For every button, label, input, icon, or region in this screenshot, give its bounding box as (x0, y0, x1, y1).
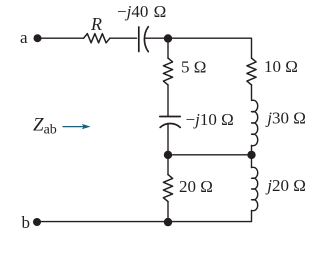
wire j30 to mid node (251, 146, 253, 155)
svg-text:R: R (90, 14, 102, 34)
resistor 20 ohm (163, 175, 172, 202)
wire cap to mid node (167, 124, 169, 155)
wire a to R (41, 37, 84, 39)
svg-text:5 Ω: 5 Ω (181, 57, 206, 76)
terminal a (34, 34, 42, 42)
wire 5ohm to cap (167, 85, 169, 116)
capacitor -j10 curved plate (160, 124, 180, 128)
wire j20 to bottom-right corner (168, 211, 252, 222)
bottom wire (41, 221, 168, 223)
svg-text:b: b (22, 213, 31, 232)
svg-text:j30 Ω: j30 Ω (265, 109, 306, 128)
node mid-left junction (164, 151, 172, 159)
wire node to top-right corner (168, 38, 252, 58)
node bottom junction (164, 218, 172, 226)
inductor j30 (252, 100, 258, 145)
node mid-right junction (247, 151, 255, 159)
resistor 5 ohm (163, 58, 172, 85)
svg-text:a: a (20, 28, 28, 47)
wire mid node down to 20 ohm (167, 155, 169, 175)
node top junction (164, 34, 172, 42)
arrow Z_ab (63, 124, 91, 129)
inductor j20 (252, 167, 258, 210)
capacitor C -j40 curved plate (144, 27, 148, 52)
svg-text:j20 Ω: j20 Ω (265, 176, 306, 195)
terminal b (33, 218, 41, 226)
middle wire (168, 154, 252, 156)
svg-text:Zab: Zab (33, 115, 57, 138)
wire R to capacitor (110, 37, 137, 39)
capacitor C -j40 straight plate (138, 27, 140, 52)
resistor 10 ohm (247, 58, 256, 85)
wire mid node to j20 (251, 155, 253, 168)
wire node down to 5 ohm (167, 38, 169, 58)
wire 20 ohm to bottom (167, 202, 169, 222)
capacitor -j10 straight plate (160, 116, 180, 118)
svg-text:10 Ω: 10 Ω (264, 57, 298, 76)
wire 10 ohm to j30 (251, 85, 253, 100)
resistor R (84, 34, 110, 43)
svg-text:−j10 Ω: −j10 Ω (186, 110, 234, 129)
svg-text:20 Ω: 20 Ω (179, 177, 213, 196)
svg-text:−j40 Ω: −j40 Ω (117, 2, 166, 21)
wire capacitor to node (145, 37, 168, 39)
